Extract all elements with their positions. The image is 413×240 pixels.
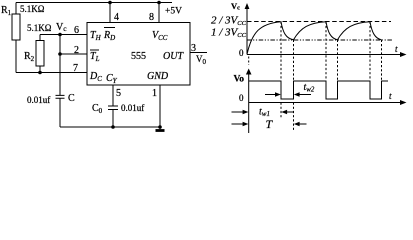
dimension terminator at origin bbox=[248, 103, 250, 134]
wire C0 bottom lead bbox=[112, 110, 114, 128]
arrowhead T pointing right bbox=[243, 122, 249, 127]
wire R1 bottom lead bbox=[15, 40, 17, 73]
wire pin8 lead bbox=[158, 3, 160, 23]
node C0 bottom junction bbox=[111, 125, 115, 129]
wire pin2 row bbox=[60, 53, 87, 55]
wire top rail bbox=[16, 2, 172, 4]
axis Vc horizontal t bbox=[247, 54, 401, 56]
svg-text:555: 555 bbox=[131, 51, 146, 62]
ground bbox=[159, 127, 161, 129]
arrow tw1 left part bbox=[232, 111, 248, 113]
svg-text:5: 5 bbox=[116, 88, 121, 99]
svg-text:5.1KΩ: 5.1KΩ bbox=[27, 23, 52, 33]
node pin4 junction bbox=[108, 1, 112, 5]
svg-text:6: 6 bbox=[74, 25, 79, 36]
dashed drop lines from Vc peaks/valleys bbox=[281, 22, 382, 81]
svg-text:0: 0 bbox=[239, 48, 244, 58]
capacitor C bbox=[56, 95, 65, 98]
node gnd junction bbox=[158, 125, 162, 129]
wire pin1 lead bbox=[159, 85, 161, 127]
wire C bottom lead bbox=[59, 98, 61, 127]
arrowhead tw2 pointing left bbox=[294, 92, 300, 97]
level 1/3Vcc dash-dot bbox=[247, 39, 392, 41]
arrowhead T pointing left bbox=[294, 122, 300, 127]
arrowhead tw2 pointing right bbox=[275, 92, 281, 97]
curve V0 square wave bbox=[249, 81, 388, 99]
svg-text:1: 1 bbox=[152, 88, 157, 99]
arrowhead tw1 pointing right bbox=[243, 110, 249, 115]
svg-text:7: 7 bbox=[73, 63, 78, 74]
svg-text:5.1KΩ: 5.1KΩ bbox=[20, 4, 45, 14]
arrow tw2 left part bbox=[265, 94, 279, 96]
node Vc pin6 junction bbox=[58, 33, 62, 37]
arrow tw2 right part bbox=[296, 94, 311, 96]
arrowhead V0 axis bbox=[246, 69, 252, 75]
curve Vc waveform bbox=[247, 22, 382, 55]
svg-text:2: 2 bbox=[74, 45, 79, 56]
wire pin4 lead bbox=[109, 3, 111, 23]
wire Vc vertical bbox=[59, 35, 61, 96]
dashed verticals below baseline for tw1/T bbox=[280, 103, 282, 118]
wire R1 top lead bbox=[15, 3, 17, 15]
wire pin7 row bbox=[16, 72, 87, 74]
svg-text:0.01uf: 0.01uf bbox=[27, 95, 50, 105]
op-amp U1 555 box bbox=[87, 23, 190, 86]
arrow T right part bbox=[296, 123, 307, 125]
svg-text:3: 3 bbox=[191, 43, 196, 54]
axis V0 vertical bbox=[248, 72, 250, 103]
svg-text:GND: GND bbox=[147, 71, 169, 82]
node R2 bottom junction bbox=[38, 71, 42, 75]
arrow T left part bbox=[232, 123, 248, 125]
capacitor C0 bbox=[108, 106, 118, 110]
svg-text:8: 8 bbox=[149, 12, 154, 23]
node pin8 junction bbox=[157, 1, 161, 5]
node Vc pin2 junction bbox=[58, 52, 62, 56]
svg-text:Vc: Vc bbox=[56, 22, 67, 33]
arrowhead t axis bbox=[400, 52, 407, 57]
svg-text:4: 4 bbox=[114, 12, 119, 23]
wire bottom rail bbox=[60, 126, 160, 128]
svg-text:Vo: Vo bbox=[234, 75, 245, 85]
wire R2 top lead bbox=[39, 35, 41, 41]
wire R2 bottom lead bbox=[39, 66, 41, 73]
axis V0 horizontal t bbox=[249, 102, 401, 104]
arrowhead V0 t axis bbox=[400, 100, 407, 105]
level 2/3Vcc dashed bbox=[247, 21, 391, 23]
wire pin6 row bbox=[40, 34, 87, 36]
arrowhead tw1 pointing left bbox=[281, 110, 287, 115]
wire pin5 lead bbox=[112, 85, 114, 106]
resistor R1 bbox=[12, 14, 20, 40]
wire OUT pin3 bbox=[190, 52, 207, 54]
resistor R2 bbox=[36, 41, 44, 67]
svg-text:+5V: +5V bbox=[165, 7, 182, 17]
arrowhead Vc axis bbox=[245, 3, 250, 9]
arrow tw1 right part bbox=[283, 111, 294, 113]
axis Vc vertical bbox=[246, 7, 248, 55]
svg-text:C: C bbox=[68, 93, 75, 104]
svg-text:OUT: OUT bbox=[163, 51, 184, 62]
svg-text:0: 0 bbox=[239, 93, 244, 103]
svg-text:0.01uf: 0.01uf bbox=[121, 103, 144, 113]
